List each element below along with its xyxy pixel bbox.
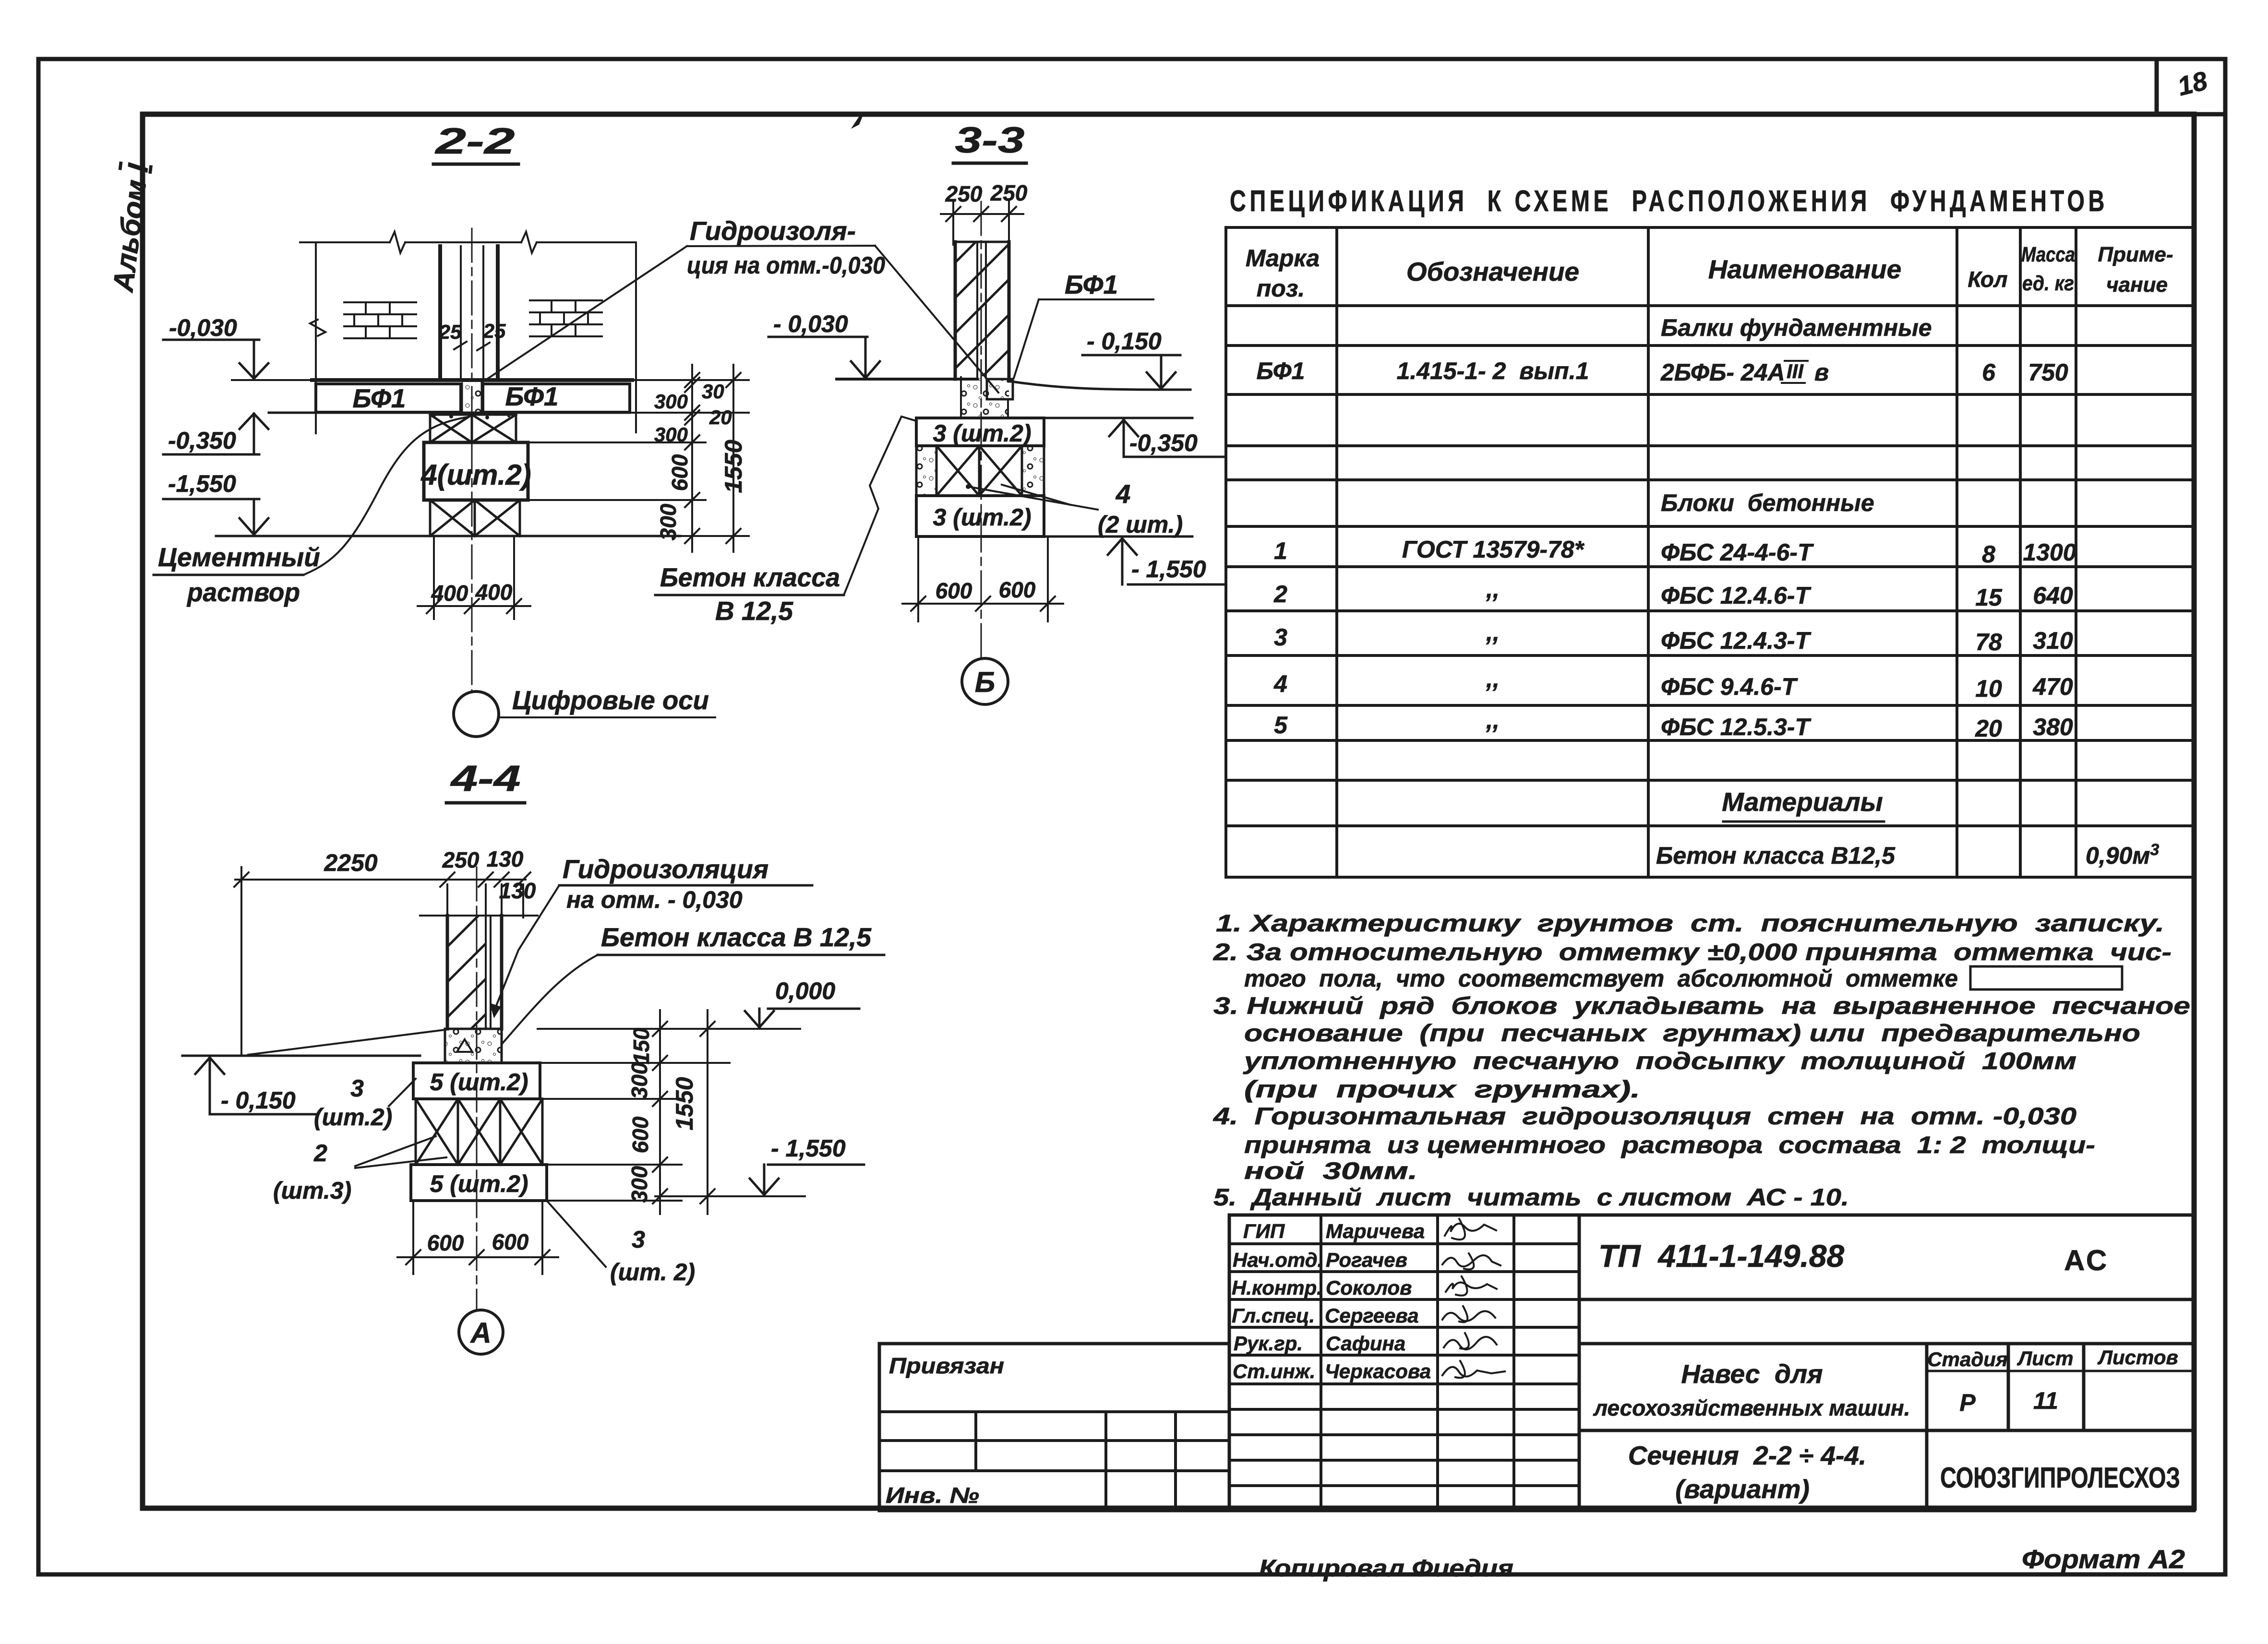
svg-text:БФ1: БФ1 <box>1065 270 1118 299</box>
footing block 3(sht.2) upper 3-3 <box>916 418 1044 447</box>
svg-text:Цифровые оси: Цифровые оси <box>512 685 709 715</box>
top break line 2-2 <box>300 232 636 253</box>
svg-text:3: 3 <box>632 1226 645 1253</box>
svg-text:принята из цементного раство: принята из цементного раствора состава 1… <box>1244 1132 2095 1158</box>
empty box in note 2 <box>1970 966 2122 989</box>
svg-text:А: А <box>469 1317 491 1349</box>
svg-text:470: 470 <box>2032 673 2073 700</box>
svg-text:Бетон класса: Бетон класса <box>660 562 840 592</box>
svg-text:1550: 1550 <box>720 440 747 493</box>
svg-text:Блоки бетонные: Блоки бетонные <box>1661 489 1874 516</box>
svg-text:АС: АС <box>2064 1244 2109 1276</box>
svg-text:раствор: раствор <box>186 577 300 607</box>
spec header texts <box>1246 243 2173 302</box>
svg-text:,,: ,, <box>1486 666 1500 692</box>
svg-text:250: 250 <box>442 847 480 872</box>
svg-text:основание (при песчаных гру: основание (при песчаных грунтах) или пре… <box>1244 1020 2140 1047</box>
grade diagonal 4-4 <box>248 1030 445 1055</box>
block row X upper 2-2 <box>430 415 516 442</box>
svg-text:300: 300 <box>627 1166 652 1203</box>
elevation -1,550 3-3 <box>1108 538 1226 584</box>
svg-text:150: 150 <box>629 1027 654 1064</box>
svg-text:Сечения 2-2 ÷ 4-4.: Сечения 2-2 ÷ 4-4. <box>1628 1441 1866 1470</box>
svg-text:СОЮЗГИПРОЛЕСХОЗ: СОЮЗГИПРОЛЕСХОЗ <box>1940 1462 2180 1494</box>
bottom line of footing 2-2 <box>216 535 680 537</box>
bottom dim 400 400 2-2 <box>418 536 530 619</box>
svg-text:Соколов: Соколов <box>1326 1276 1412 1299</box>
elevation -0,150 3-3 <box>1082 328 1180 389</box>
svg-text:Листов: Листов <box>2097 1346 2178 1369</box>
svg-text:Сафина: Сафина <box>1326 1332 1405 1355</box>
svg-text:3-3: 3-3 <box>955 120 1025 161</box>
svg-text:3 (шт.2): 3 (шт.2) <box>933 504 1032 531</box>
svg-text:4: 4 <box>1116 479 1131 509</box>
svg-text:750: 750 <box>2028 359 2068 386</box>
svg-text:- 0,150: - 0,150 <box>221 1087 296 1114</box>
svg-text:300: 300 <box>656 503 681 540</box>
svg-text:5 (шт.2): 5 (шт.2) <box>430 1069 528 1096</box>
stamp signature names <box>1325 1220 1431 1382</box>
svg-text:300: 300 <box>654 423 688 446</box>
footing top line 3-3 <box>916 417 1192 419</box>
stamp object name <box>1593 1359 1910 1420</box>
svg-text:- 0,030: - 0,030 <box>773 310 848 337</box>
top dim 250 250 3-3 <box>941 180 1028 245</box>
svg-text:ной 30мм.: ной 30мм. <box>1244 1157 1417 1184</box>
svg-text:2: 2 <box>1273 581 1287 608</box>
right dim extension lines 4-4 <box>540 1063 730 1201</box>
svg-text:Масса: Масса <box>2021 243 2075 266</box>
svg-text:2. За относительную отметку ±: 2. За относительную отметку ±0,000 приня… <box>1213 939 2172 965</box>
svg-text:Стадия: Стадия <box>1927 1348 2007 1370</box>
elevation 0,000 4-4 <box>538 977 859 1029</box>
bottom dim 600 600 3-3 <box>902 538 1063 621</box>
page number box divider <box>2155 59 2159 114</box>
svg-text:Лист: Лист <box>2016 1347 2073 1370</box>
svg-text:Гидроизоля-: Гидроизоля- <box>690 216 856 246</box>
inner dim chain 4-4 <box>653 1010 667 1214</box>
spec row 1 <box>1274 536 2076 568</box>
svg-text:-1,550: -1,550 <box>168 470 236 497</box>
svg-text:-0,350: -0,350 <box>1129 429 1198 456</box>
brick hatch left 2-2 <box>344 302 416 338</box>
svg-text:4-4: 4-4 <box>450 758 521 799</box>
svg-text:ГОСТ 13579-78*: ГОСТ 13579-78* <box>1402 536 1585 563</box>
left extension line 2-2 <box>315 242 317 433</box>
svg-text:Кол: Кол <box>1968 267 2007 292</box>
svg-text:ция на отм.-0,030: ция на отм.-0,030 <box>687 252 885 279</box>
floor line 2-2 <box>312 378 632 382</box>
label 3 (sht.2) upper left 4-4 <box>314 1075 416 1131</box>
beam BF1 left 2-2 <box>316 384 461 412</box>
inner border frame <box>143 114 2194 1508</box>
label beton klassa B12,5 2-2 <box>655 417 914 626</box>
spec row beton <box>1656 841 2159 869</box>
right extension line 2-2 <box>635 242 637 432</box>
svg-text:3: 3 <box>350 1075 364 1102</box>
elevation -0,030 left <box>163 314 316 380</box>
wall seam edges 2-2 <box>461 246 483 380</box>
svg-text:11: 11 <box>2033 1387 2058 1414</box>
svg-text:ед. кг: ед. кг <box>2022 272 2074 295</box>
svg-text:Р: Р <box>1959 1389 1976 1416</box>
svg-text:4: 4 <box>1273 670 1287 697</box>
svg-text:Б: Б <box>975 666 995 698</box>
svg-text:В 12,5: В 12,5 <box>715 596 793 626</box>
svg-text:Инв. №: Инв. № <box>886 1483 979 1508</box>
svg-text:Н.контр.: Н.контр. <box>1232 1276 1322 1299</box>
svg-text:6: 6 <box>1982 359 1996 386</box>
svg-text:БФ1: БФ1 <box>505 381 558 411</box>
svg-text:(шт.2): (шт.2) <box>314 1104 392 1131</box>
svg-text:130: 130 <box>499 878 536 903</box>
wall hatched 3-3 <box>955 242 1009 381</box>
svg-text:,,: ,, <box>1486 619 1500 646</box>
svg-text:ФБС 12.4.6-Т: ФБС 12.4.6-Т <box>1661 582 1812 609</box>
svg-text:Гл.спец.: Гл.спец. <box>1232 1304 1315 1327</box>
brick hatch right 2-2 <box>530 300 602 336</box>
concrete pad under wall 4-4 <box>445 1029 502 1063</box>
svg-text:(шт.3): (шт.3) <box>273 1177 351 1204</box>
svg-text:(вариант): (вариант) <box>1675 1474 1810 1504</box>
svg-text:300: 300 <box>627 1062 652 1099</box>
section 4-4 title <box>446 758 525 803</box>
svg-text:5: 5 <box>1274 712 1288 739</box>
label beton klassa B12,5 4-4 <box>503 922 884 1043</box>
svg-text:Балки фундаментные: Балки фундаментные <box>1661 314 1932 341</box>
svg-text:1. Характеристику грунтов ст: 1. Характеристику грунтов ст. пояснитель… <box>1216 910 2164 937</box>
rotated dim labels 4-4 <box>627 1027 698 1203</box>
stamp signature scribbles <box>1442 1219 1505 1378</box>
svg-text:Формат А2: Формат А2 <box>2022 1544 2185 1574</box>
svg-text:8: 8 <box>1982 541 1995 568</box>
svg-text:,,: ,, <box>1486 576 1500 603</box>
svg-text:уплотненную песчаную подсыпк: уплотненную песчаную подсыпку толщиной 1… <box>1242 1048 2076 1074</box>
svg-text:3: 3 <box>1274 624 1287 651</box>
svg-text:Сергеева: Сергеева <box>1325 1304 1419 1327</box>
block row X lower 2-2 <box>430 500 520 536</box>
wall centerline 4-4 <box>476 867 478 1310</box>
spec row 2 <box>1273 576 2073 611</box>
svg-text:Рогачев: Рогачев <box>1326 1249 1407 1271</box>
spec row materialy <box>1722 787 1884 822</box>
axis circle B 3-3 <box>962 658 1008 704</box>
svg-text:640: 640 <box>2033 582 2073 609</box>
svg-text:400: 400 <box>475 580 513 605</box>
stamp stadia list listov headers <box>1927 1346 2178 1370</box>
svg-text:Наименование: Наименование <box>1708 254 1901 284</box>
section 2-2 title <box>433 121 518 164</box>
svg-text:Навес для: Навес для <box>1681 1359 1823 1389</box>
svg-text:в: в <box>1814 359 1829 386</box>
label hydroizolyatsiya 2-2 <box>482 216 998 393</box>
footing block 5(sht.2) lower 4-4 <box>411 1165 547 1201</box>
right dim chain extension lines 2-2 <box>528 380 749 536</box>
svg-text:250: 250 <box>945 181 983 206</box>
mortar seam speckle 2-2 <box>433 381 510 419</box>
svg-text:Бетон класса В 12,5: Бетон класса В 12,5 <box>601 922 872 952</box>
label BF1 3-3 <box>1014 270 1153 378</box>
svg-text:(при прочих грунтах).: (при прочих грунтах). <box>1244 1076 1640 1103</box>
svg-text:600: 600 <box>667 454 692 491</box>
svg-text:лесохозяйственных машин.: лесохозяйственных машин. <box>1593 1395 1910 1420</box>
svg-text:Рук.гр.: Рук.гр. <box>1234 1332 1303 1355</box>
svg-text:4. Горизонтальная гидроизоля: 4. Горизонтальная гидроизоляция стен на … <box>1213 1103 2076 1130</box>
svg-text:400: 400 <box>431 581 468 606</box>
elevation -1,550 left <box>163 470 268 535</box>
spec row 5 <box>1274 707 2073 742</box>
elevation -0,150 4-4 <box>195 1058 317 1114</box>
svg-text:поз.: поз. <box>1257 275 1305 302</box>
svg-text:ФБС 9.4.6-Т: ФБС 9.4.6-Т <box>1661 673 1799 700</box>
svg-text:20: 20 <box>1975 715 2002 742</box>
line under beams 2-2 <box>269 412 630 414</box>
svg-text:,,: ,, <box>1486 707 1500 734</box>
outer dim chain 1550 4-4 <box>700 1010 715 1214</box>
svg-text:Гидроизоляция: Гидроизоляция <box>563 854 768 884</box>
wall faces 2-2 <box>440 246 498 379</box>
svg-text:0,90м3: 0,90м3 <box>2086 841 2159 869</box>
svg-text:БФ1: БФ1 <box>352 383 406 413</box>
spec row 4 <box>1273 666 2073 702</box>
top dims 250 130 130 4-4 <box>442 846 536 903</box>
label hydroizolyatsiya 4-4 <box>490 854 812 1018</box>
svg-text:Привязан: Привязан <box>889 1353 1004 1378</box>
svg-text:310: 310 <box>2033 627 2073 654</box>
svg-text:- 1,550: - 1,550 <box>1131 556 1206 583</box>
svg-text:(2 шт.): (2 шт.) <box>1098 511 1183 538</box>
axis circle 2-2 <box>454 685 715 737</box>
svg-text:- 1,550: - 1,550 <box>771 1135 846 1162</box>
footing X row 3-3 <box>916 446 1044 496</box>
wall hatched 4-4 <box>420 916 538 1029</box>
svg-text:600: 600 <box>492 1229 529 1254</box>
svg-text:0,000: 0,000 <box>775 977 835 1004</box>
seam dim labels 25 25 <box>439 320 506 350</box>
svg-text:на отм. - 0,030: на отм. - 0,030 <box>566 886 743 913</box>
svg-text:ФБС 12.5.3-Т: ФБС 12.5.3-Т <box>1661 714 1812 740</box>
svg-text:25: 25 <box>439 321 462 343</box>
svg-text:1300: 1300 <box>2023 539 2076 566</box>
svg-text:Бетон класса В12,5: Бетон класса В12,5 <box>1656 842 1896 869</box>
wall top extension lines 4-4 <box>447 884 523 917</box>
svg-text:600: 600 <box>936 578 972 603</box>
svg-text:ТП 411-1-149.88: ТП 411-1-149.88 <box>1598 1238 1845 1274</box>
svg-text:78: 78 <box>1975 629 2002 655</box>
svg-text:Приме-: Приме- <box>2098 243 2173 266</box>
inner dim chain vertical 2-2 <box>685 365 699 552</box>
svg-text:Обозначение: Обозначение <box>1406 257 1579 286</box>
svg-text:ФБС 12.4.3-Т: ФБС 12.4.3-Т <box>1661 627 1812 654</box>
elevation -1,550 4-4 <box>655 1135 864 1196</box>
footing X row 4-4 <box>416 1099 542 1165</box>
spec table grid <box>1226 227 2194 877</box>
ground line 3-3 <box>837 378 977 381</box>
svg-text:-0,350: -0,350 <box>168 427 236 454</box>
svg-text:Копировал Фиедия: Копировал Фиедия <box>1259 1555 1513 1582</box>
tick arrow on top inner border <box>854 114 862 126</box>
svg-text:3 (шт.2): 3 (шт.2) <box>933 420 1032 447</box>
svg-text:чание: чание <box>2106 273 2168 297</box>
svg-text:3. Нижний ряд блоков уклады: 3. Нижний ряд блоков укладывать на вырав… <box>1213 992 2190 1019</box>
stamp signature labels <box>1232 1220 1323 1382</box>
stamp left attachment table <box>879 1344 1229 1511</box>
svg-text:20: 20 <box>709 406 732 429</box>
svg-text:БФ1: БФ1 <box>1257 357 1305 384</box>
svg-text:600: 600 <box>999 577 1036 602</box>
label 3 (sht.2) bottom right 4-4 <box>547 1201 695 1286</box>
wall centerline 2-2 <box>471 228 473 691</box>
svg-text:того пола, что соответствуе: того пола, что соответствует абсолютной … <box>1244 965 1958 992</box>
svg-text:15: 15 <box>1975 584 2003 611</box>
section 3-3 title <box>953 120 1026 163</box>
svg-text:- 0,150: - 0,150 <box>1087 328 1162 355</box>
break mark on left extension <box>310 320 325 336</box>
elevation -0,350 3-3 <box>1109 420 1224 457</box>
wall centerline 3-3 <box>981 202 982 658</box>
svg-text:130: 130 <box>487 846 524 871</box>
svg-text:4(шт.2): 4(шт.2) <box>420 459 531 491</box>
svg-text:(шт. 2): (шт. 2) <box>610 1259 695 1286</box>
below-ground wall speckle 3-3 <box>961 377 1013 417</box>
svg-text:Цементный: Цементный <box>158 542 320 572</box>
ground line left 4-4 <box>182 1055 420 1057</box>
svg-text:25: 25 <box>483 320 506 342</box>
svg-text:5. Данный лист читать с ли: 5. Данный лист читать с листом АС - 10. <box>1213 1184 1849 1211</box>
spec row BF1 <box>1257 357 2068 386</box>
block 4(sht.2) 2-2 <box>420 442 531 500</box>
svg-text:2: 2 <box>313 1140 327 1167</box>
svg-text:-0,030: -0,030 <box>169 314 237 341</box>
footing bottom line 3-3 <box>916 536 1192 538</box>
svg-text:380: 380 <box>2033 714 2073 740</box>
footing block 3(sht.2) lower 3-3 <box>916 496 1044 536</box>
svg-text:Материалы: Материалы <box>1722 787 1883 817</box>
svg-text:300: 300 <box>654 390 688 413</box>
svg-text:1: 1 <box>1274 537 1287 564</box>
axis circle A 4-4 <box>459 1310 503 1354</box>
svg-text:600: 600 <box>628 1116 653 1153</box>
bottom dim 600 600 4-4 <box>397 1203 558 1274</box>
stamp sheet name <box>1628 1441 1866 1504</box>
svg-text:ФБС 24-4-6-Т: ФБС 24-4-6-Т <box>1661 539 1814 566</box>
svg-text:III: III <box>1787 360 1804 382</box>
label 2 (sht.3) left 4-4 <box>273 1136 446 1204</box>
svg-text:ГИП: ГИП <box>1243 1220 1285 1242</box>
svg-text:Марка: Марка <box>1246 245 1320 272</box>
stamp right section grid <box>1579 1215 2194 1511</box>
svg-text:2БФБ- 24А: 2БФБ- 24А <box>1660 359 1785 386</box>
svg-text:Черкасова: Черкасова <box>1325 1360 1431 1382</box>
svg-text:1.415-1- 2 вып.1: 1.415-1- 2 вып.1 <box>1397 357 1589 384</box>
dim labels right chain 2-2 <box>654 380 747 540</box>
svg-text:5 (шт.2): 5 (шт.2) <box>430 1170 528 1197</box>
stamp signature table grid <box>1229 1215 1579 1511</box>
svg-text:2250: 2250 <box>324 849 377 876</box>
svg-text:Нач.отд.: Нач.отд. <box>1233 1249 1323 1271</box>
svg-text:10: 10 <box>1975 675 2002 702</box>
svg-text:2-2: 2-2 <box>434 121 515 162</box>
footing block 5(sht.2) upper 4-4 <box>413 1063 540 1099</box>
svg-text:Ст.инж.: Ст.инж. <box>1233 1360 1315 1382</box>
svg-text:600: 600 <box>427 1230 464 1255</box>
svg-text:СПЕЦИФИКАЦИЯ К СХЕМЕ РАСПОЛО: СПЕЦИФИКАЦИЯ К СХЕМЕ РАСПОЛОЖЕНИЯ ФУНДАМ… <box>1230 185 2108 218</box>
label 4 (2 sht.) 3-3 <box>966 479 1183 538</box>
label cement mortar 2-2 <box>154 417 468 607</box>
svg-text:1550: 1550 <box>671 1077 698 1130</box>
elevation -0,030 3-3 <box>768 310 880 378</box>
beam BF1 right 2-2 <box>483 384 630 412</box>
spec row 3 <box>1274 619 2073 655</box>
elevation -0,350 left <box>163 414 268 454</box>
svg-text:30: 30 <box>702 380 724 403</box>
top dim 2250 4-4 <box>234 849 530 1056</box>
svg-text:Маричева: Маричева <box>1326 1220 1425 1242</box>
outer dim chain vertical 1550 2-2 <box>726 365 741 552</box>
